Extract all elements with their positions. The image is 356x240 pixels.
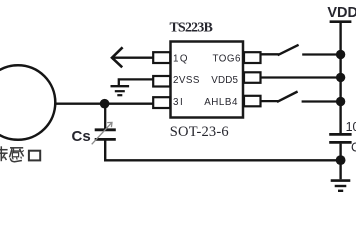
wire: switch S2 to VDD rail (302, 100, 341, 102)
pin 5 pad (244, 72, 261, 83)
node: pin6/VDD rail junction (336, 50, 345, 59)
wire: pin 4 to switch (261, 100, 279, 102)
junction node at Cs (100, 99, 110, 109)
svg-text:104: 104 (346, 120, 356, 134)
node: pin5/VDD rail junction (336, 73, 345, 82)
node: bottom junction (336, 155, 346, 165)
svg-text:VDD5: VDD5 (211, 75, 238, 86)
wire: switch S1 to VDD rail (302, 53, 340, 55)
svg-text:TS223B: TS223B (170, 19, 213, 34)
wire: sensor to pin 3 (input I) (55, 102, 154, 104)
IC U1 body (TS223B) (171, 42, 244, 118)
touch sensor pad (circle) (0, 65, 55, 140)
capacitor C1 (decoupling 104) (329, 134, 351, 142)
wire: Cs down and along bottom to right node (105, 141, 340, 161)
svg-text:VDD: VDD (327, 5, 356, 21)
VDD rail vertical wire (339, 23, 341, 134)
svg-text:AHLB4: AHLB4 (204, 97, 238, 108)
svg-text:2VSS: 2VSS (173, 75, 200, 86)
pin 1 pad (153, 52, 170, 63)
capacitor Cs (variable sense capacitor) (92, 122, 116, 144)
pin 3 pad (153, 97, 170, 108)
pin 6 pad (244, 52, 261, 63)
label 传感口 (0, 146, 40, 161)
pin 4 pad (244, 96, 261, 107)
svg-text:1Q: 1Q (173, 53, 189, 64)
svg-text:C4: C4 (351, 141, 356, 155)
wire: pin 6 to switch (261, 53, 279, 55)
switch S1 (TOG) blade (278, 45, 299, 55)
wire: pin 5 to VDD rail (261, 76, 341, 78)
wire: junction down to Cs (104, 104, 106, 129)
switch S2 (AHLB) blade (277, 92, 298, 102)
node: pin4/VDD rail junction (336, 97, 345, 106)
svg-text:Cs: Cs (72, 128, 91, 145)
pin 2 pad (153, 76, 170, 87)
ground at VSS (111, 86, 130, 95)
VDD power rail bar (330, 20, 352, 23)
output arrow from pin 1 (Q) (112, 47, 153, 67)
svg-text:TOG6: TOG6 (213, 53, 242, 64)
wire: pin 2 to ground (119, 79, 153, 85)
ground (bottom right) (331, 181, 351, 191)
svg-text:SOT-23-6: SOT-23-6 (170, 124, 229, 140)
svg-text:3I: 3I (173, 97, 184, 108)
wire: C1 to bottom node (339, 144, 341, 161)
wire: node to ground (339, 160, 341, 179)
